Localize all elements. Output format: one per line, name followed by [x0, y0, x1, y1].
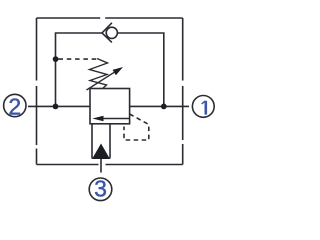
svg-text:2: 2 — [8, 94, 21, 120]
svg-text:3: 3 — [94, 176, 107, 202]
